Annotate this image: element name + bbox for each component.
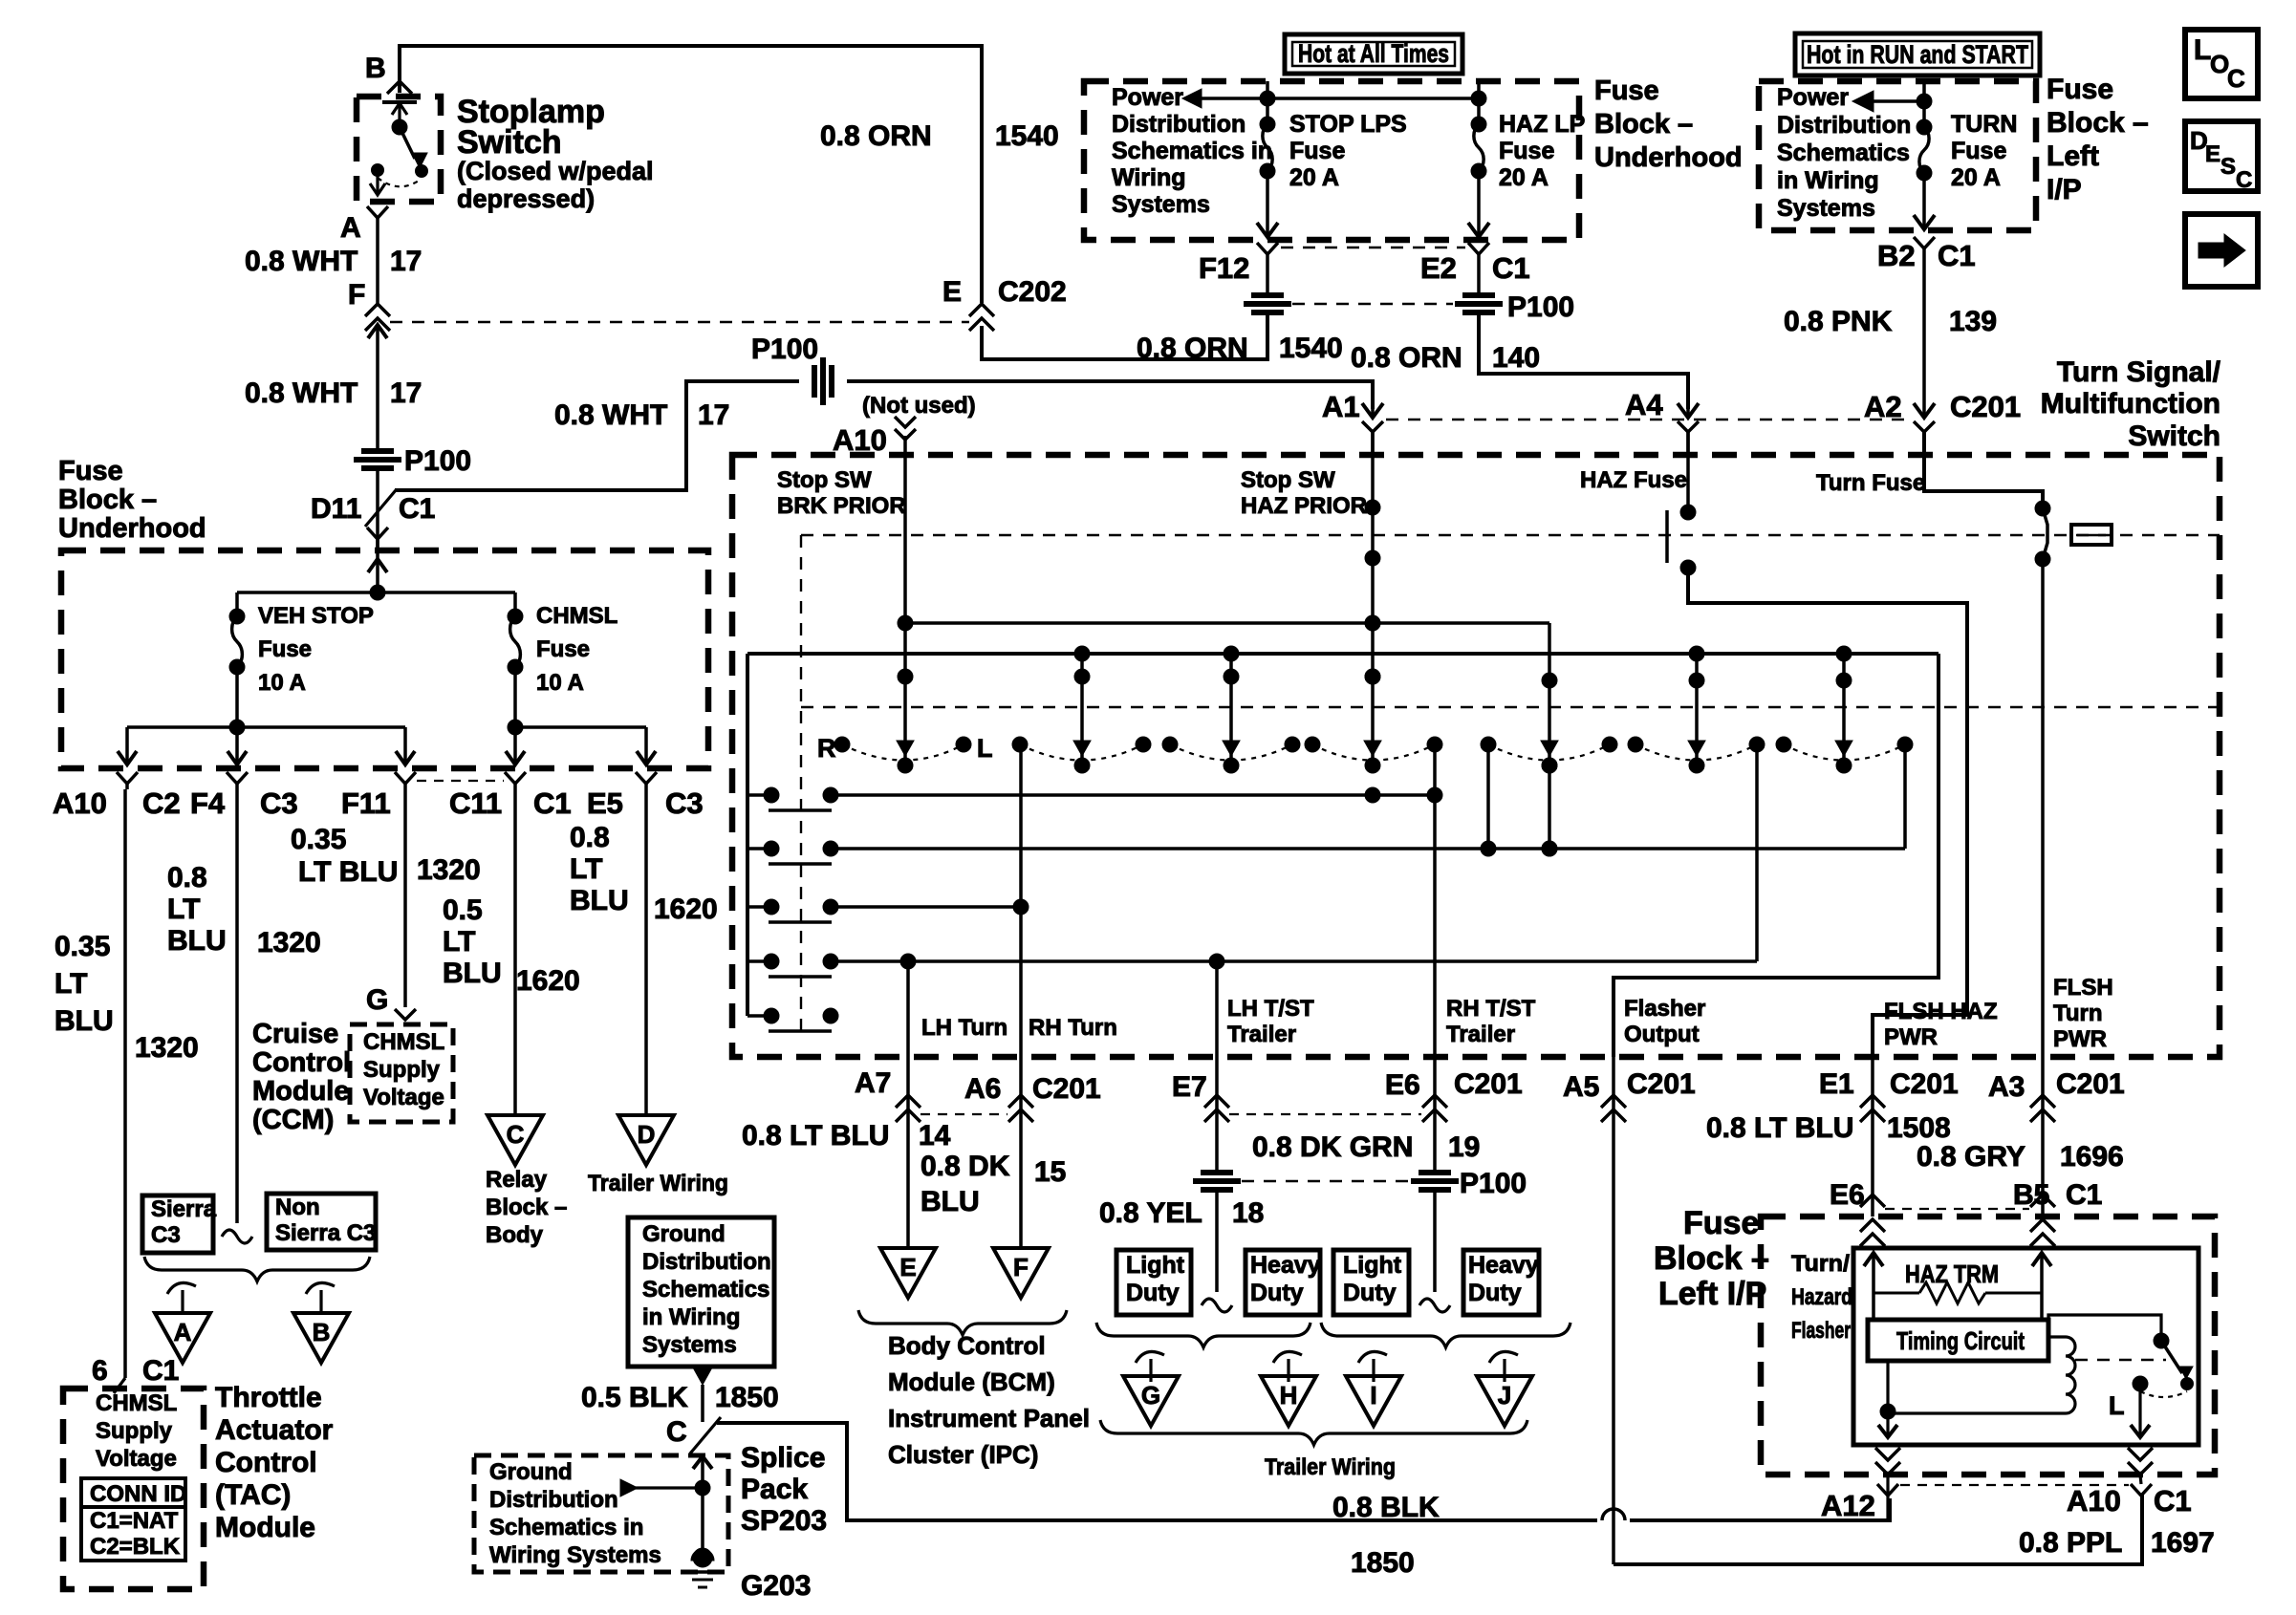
- TAC CHMSL supply voltage box: [63, 1389, 204, 1589]
- ground wire from box: [693, 1367, 712, 1385]
- svg-text:Control: Control: [215, 1447, 317, 1478]
- flasher B5 entry chevrons: [2030, 1219, 2055, 1232]
- arrow legend box: [2185, 214, 2258, 287]
- svg-text:Duty: Duty: [1250, 1280, 1304, 1306]
- svg-text:HAZ Fuse: HAZ Fuse: [1580, 467, 1687, 493]
- svg-text:C1: C1: [399, 493, 435, 525]
- svg-text:A10: A10: [2067, 1484, 2121, 1518]
- svg-text:C2: C2: [142, 786, 181, 820]
- stoplamp switch travel arc: [378, 178, 422, 186]
- Heavy Duty box 4: [1463, 1250, 1539, 1315]
- svg-text:Control: Control: [252, 1047, 351, 1078]
- svg-text:Supply: Supply: [363, 1057, 441, 1083]
- triangle H stem: [1273, 1351, 1302, 1363]
- svg-text:0.35: 0.35: [54, 931, 110, 962]
- flasher A10 exit chevrons: [2128, 1448, 2153, 1460]
- svg-text:C201: C201: [1890, 1068, 1959, 1100]
- svg-text:CHMSL: CHMSL: [96, 1390, 177, 1416]
- svg-text:E6: E6: [1385, 1069, 1420, 1101]
- turn fuse symbol: [2071, 525, 2112, 545]
- hazard contact row2: [747, 847, 765, 851]
- svg-text:HAZ PRIOR: HAZ PRIOR: [1241, 493, 1367, 519]
- connector E6 flasher chevron: [1860, 1195, 1885, 1207]
- contact group 1 R-L: [834, 737, 850, 752]
- svg-text:139: 139: [1949, 306, 1997, 337]
- connector C202 E chevrons: [969, 304, 994, 316]
- triangle H: [1261, 1376, 1316, 1426]
- grommet P100 on branch: [812, 365, 817, 398]
- svg-text:1320: 1320: [257, 927, 321, 958]
- triangle C: [487, 1115, 543, 1165]
- turn fuse contact blade: [2043, 508, 2047, 559]
- break squiggle above CCM brace: [222, 1230, 252, 1243]
- svg-text:F: F: [1013, 1253, 1029, 1281]
- svg-text:C1: C1: [533, 786, 572, 820]
- svg-text:L: L: [977, 734, 993, 763]
- HAZ fuse lower contact: [1680, 560, 1696, 575]
- internal dashed line lower: [801, 706, 2220, 708]
- flasher blade pivot: [2154, 1333, 2169, 1348]
- svg-text:Underhood: Underhood: [1594, 142, 1743, 173]
- fuse HAZ LP 20A: [1471, 117, 1486, 132]
- grommet P100 E7: [1201, 1170, 1233, 1175]
- svg-text:0.8 PNK: 0.8 PNK: [1784, 306, 1893, 337]
- svg-text:Distribution: Distribution: [1777, 112, 1911, 139]
- switch bus wire2: [747, 652, 1939, 656]
- svg-text:A4: A4: [1625, 388, 1663, 421]
- splice feed arrow: [620, 1479, 638, 1497]
- connector A10/C2 chevron: [117, 772, 138, 784]
- svg-text:Supply: Supply: [96, 1418, 173, 1444]
- power distribution bus arrow (right): [1852, 91, 1874, 112]
- resistor HAZ TRM: [1874, 1292, 1919, 1295]
- wire E6 to trailer: [1433, 1119, 1437, 1172]
- svg-text:Wiring: Wiring: [1112, 164, 1186, 191]
- fuse TURN 20A: [1917, 119, 1932, 135]
- wire LH Turn: [906, 961, 910, 1057]
- svg-text:Fuse: Fuse: [258, 636, 312, 662]
- svg-text:D: D: [638, 1120, 656, 1149]
- svg-text:C: C: [507, 1120, 525, 1149]
- svg-text:Block –: Block –: [1654, 1240, 1769, 1277]
- wire E7 0.8 DK GRN trailer: [1215, 1119, 1219, 1172]
- splice junction: [701, 1462, 704, 1550]
- wire A1 HAZ PRIOR drop: [1371, 432, 1375, 760]
- svg-text:A7: A7: [855, 1067, 891, 1099]
- svg-text:BLU: BLU: [167, 925, 227, 957]
- svg-text:Switch: Switch: [457, 124, 562, 161]
- svg-text:STOP LPS: STOP LPS: [1289, 111, 1407, 138]
- svg-text:Non: Non: [275, 1195, 320, 1220]
- svg-text:Hot at All Times: Hot at All Times: [1298, 39, 1449, 68]
- splice top chevron: [693, 1456, 712, 1469]
- wire stoplamp B to C202-E top run: [400, 46, 982, 303]
- svg-text:A: A: [340, 212, 361, 244]
- svg-text:Ground: Ground: [489, 1459, 573, 1485]
- power distribution bus arrow: [1182, 89, 1202, 108]
- TURN fuse feed: [1922, 81, 1926, 127]
- svg-text:1320: 1320: [135, 1032, 199, 1064]
- svg-text:10 A: 10 A: [536, 670, 584, 696]
- svg-text:Duty: Duty: [1468, 1280, 1522, 1306]
- svg-text:0.5 BLK: 0.5 BLK: [581, 1382, 688, 1413]
- connector F11 chevron: [395, 772, 416, 784]
- svg-text:0.8: 0.8: [570, 822, 610, 853]
- svg-text:A1: A1: [1322, 390, 1360, 423]
- svg-text:FLSH HAZ: FLSH HAZ: [1884, 999, 1998, 1024]
- connector A4 arrow: [1678, 403, 1699, 418]
- svg-text:17: 17: [390, 377, 422, 409]
- svg-text:18: 18: [1232, 1197, 1264, 1229]
- triangle I: [1346, 1376, 1401, 1426]
- svg-text:Systems: Systems: [642, 1332, 737, 1358]
- wire turn fuse to A3: [2041, 559, 2045, 1057]
- Light Duty box 1: [1116, 1250, 1191, 1315]
- svg-text:Turn Fuse: Turn Fuse: [1816, 470, 1925, 496]
- svg-text:(Not used): (Not used): [862, 393, 976, 419]
- wire G6 right drop: [1755, 744, 1759, 961]
- Heavy Duty box 2: [1245, 1250, 1320, 1315]
- svg-text:LT: LT: [443, 926, 475, 958]
- wire F below C202: [376, 325, 379, 449]
- triangle J stem: [1489, 1351, 1518, 1363]
- flasher travel arc: [2140, 1391, 2187, 1397]
- svg-text:Fuse: Fuse: [58, 456, 123, 486]
- svg-text:Trailer Wiring: Trailer Wiring: [1265, 1454, 1396, 1480]
- turn signal multifunction switch box: [732, 455, 2220, 1057]
- svg-text:Fuse: Fuse: [1683, 1205, 1759, 1241]
- svg-text:1508: 1508: [1887, 1112, 1951, 1144]
- svg-text:Switch: Switch: [2128, 420, 2220, 452]
- connector A7 pin: [906, 1057, 910, 1119]
- svg-text:I: I: [1370, 1381, 1376, 1410]
- svg-text:1540: 1540: [995, 120, 1059, 152]
- svg-text:1696: 1696: [2060, 1141, 2124, 1173]
- svg-text:Power: Power: [1777, 84, 1849, 111]
- svg-text:BLU: BLU: [921, 1186, 980, 1217]
- svg-text:0.8 ORN: 0.8 ORN: [1351, 342, 1462, 374]
- contact drop 3: [1229, 654, 1233, 760]
- svg-text:Schematics: Schematics: [1777, 140, 1910, 166]
- connector F11-C11 dashed: [417, 780, 504, 782]
- wire branch circuit 17 to A1: [395, 381, 799, 490]
- triangle G: [1123, 1376, 1179, 1426]
- svg-text:CHMSL: CHMSL: [536, 603, 617, 629]
- svg-text:Splice: Splice: [741, 1442, 825, 1474]
- wire 0.8 PNK 139: [1922, 247, 1926, 409]
- contact drop under A10: [898, 669, 913, 684]
- grommet P100 pair: [1251, 292, 1284, 298]
- svg-text:Block –: Block –: [58, 484, 157, 515]
- svg-text:C1: C1: [1938, 239, 1976, 272]
- wire E1 0.8 LT BLU 1508: [1871, 1119, 1874, 1217]
- contact group 7: [1776, 737, 1791, 752]
- svg-text:E6: E6: [1830, 1179, 1865, 1211]
- svg-text:P100: P100: [751, 334, 818, 365]
- svg-text:Trailer: Trailer: [1227, 1022, 1296, 1047]
- wire A10 0.35 LT BLU 1320: [123, 789, 127, 1378]
- svg-text:(CCM): (CCM): [252, 1105, 334, 1135]
- svg-text:1620: 1620: [516, 965, 580, 997]
- wire F4 0.8 LT BLU 1320: [235, 789, 239, 1223]
- svg-text:C201: C201: [2056, 1068, 2125, 1100]
- flasher blade: [2161, 1341, 2182, 1373]
- flasher coil link dashed: [2075, 1359, 2166, 1361]
- switch bus wire1: [905, 621, 1549, 625]
- svg-text:A10: A10: [833, 423, 887, 457]
- flasher connector dashed: [1885, 1208, 2029, 1210]
- svg-text:B2: B2: [1877, 239, 1916, 272]
- wire to A10/C2: [125, 727, 129, 764]
- svg-text:BLU: BLU: [54, 1005, 114, 1037]
- svg-text:RH Turn: RH Turn: [1029, 1015, 1117, 1041]
- wire C11 0.5 LT BLU 1620: [513, 789, 517, 1115]
- svg-text:Timing Circuit: Timing Circuit: [1896, 1326, 2025, 1355]
- internal dashed vertical BRK PRIOR: [800, 535, 802, 1031]
- svg-text:Turn: Turn: [2053, 1001, 2103, 1026]
- CONN ID box: [81, 1478, 185, 1507]
- svg-text:Hazard: Hazard: [1791, 1284, 1852, 1310]
- wire 0.8 PPL 1697: [1614, 1494, 2142, 1564]
- triangle F: [993, 1248, 1049, 1298]
- svg-text:P100: P100: [1507, 291, 1574, 323]
- svg-text:Duty: Duty: [1126, 1280, 1180, 1306]
- svg-text:R: R: [817, 734, 836, 763]
- fuse VEH STOP 10A: [229, 609, 245, 624]
- wire A4 HAZ fuse drop: [1686, 432, 1690, 512]
- connector B5 flasher chevron: [2030, 1195, 2055, 1207]
- wire E6 drop: [1433, 744, 1437, 1057]
- svg-text:140: 140: [1492, 342, 1540, 374]
- svg-text:0.8 LT BLU: 0.8 LT BLU: [742, 1120, 889, 1152]
- ground G203: [691, 1549, 714, 1561]
- wire D11 into block: [367, 528, 388, 539]
- svg-text:I/P: I/P: [2047, 174, 2082, 205]
- splice pack box: [474, 1455, 728, 1572]
- HAZ LP fuse feed: [1477, 81, 1481, 124]
- wire E5 0.8 LT BLU 1620: [644, 789, 648, 1115]
- connector G chevron: [395, 1009, 416, 1020]
- connector A3 pin: [2041, 1057, 2045, 1119]
- svg-text:Block –: Block –: [1594, 109, 1693, 140]
- svg-text:19: 19: [1448, 1131, 1480, 1163]
- svg-text:Module (BCM): Module (BCM): [888, 1367, 1055, 1396]
- svg-text:C1: C1: [142, 1355, 179, 1387]
- wire A2 turn fuse: [1924, 432, 2043, 508]
- svg-text:Block –: Block –: [2047, 107, 2149, 139]
- svg-text:C201: C201: [1032, 1073, 1101, 1105]
- svg-text:PWR: PWR: [1884, 1024, 1938, 1050]
- connector A2 entry: [1922, 432, 1926, 455]
- VEH STOP splits: [127, 725, 405, 729]
- svg-text:14: 14: [919, 1120, 951, 1152]
- wire G7 right drop: [1903, 744, 1907, 849]
- svg-text:Cluster (IPC): Cluster (IPC): [888, 1440, 1038, 1469]
- connector E1 pin: [1871, 1057, 1874, 1119]
- triangle D: [618, 1115, 674, 1165]
- connector F12 chevron: [1257, 243, 1278, 254]
- svg-text:1540: 1540: [1279, 333, 1343, 364]
- svg-text:0.8 PPL: 0.8 PPL: [2019, 1527, 2122, 1559]
- svg-text:Trailer Wiring: Trailer Wiring: [588, 1171, 728, 1196]
- svg-text:Light: Light: [1126, 1252, 1185, 1279]
- wire C to BLK run: [717, 1423, 1597, 1520]
- wire A7 0.8 LT BLU 14: [906, 1119, 910, 1248]
- connector C202 F chevrons: [365, 304, 390, 316]
- break squiggle E7: [1202, 1299, 1232, 1312]
- svg-text:E5: E5: [587, 786, 623, 820]
- trailer brace 1: [1096, 1323, 1310, 1347]
- svg-text:Distribution: Distribution: [642, 1249, 771, 1275]
- svg-text:VEH STOP: VEH STOP: [258, 603, 374, 629]
- stoplamp switch S1 box: [357, 97, 441, 202]
- svg-text:Flasher: Flasher: [1624, 996, 1705, 1022]
- contact group 6: [1628, 737, 1643, 752]
- wire A5 flasher output: [1612, 1119, 1615, 1564]
- svg-text:in Wiring: in Wiring: [642, 1304, 740, 1330]
- svg-text:B5: B5: [2013, 1179, 2049, 1211]
- svg-text:in Wiring: in Wiring: [1777, 167, 1879, 194]
- svg-text:Fuse: Fuse: [536, 636, 590, 662]
- svg-text:Cruise: Cruise: [252, 1019, 338, 1049]
- svg-text:Systems: Systems: [1112, 191, 1210, 218]
- triangle A: [155, 1313, 210, 1363]
- wire to E5/C3: [644, 727, 648, 764]
- svg-text:Body Control: Body Control: [888, 1331, 1046, 1360]
- triangle E: [880, 1248, 936, 1298]
- svg-text:Pack: Pack: [741, 1474, 808, 1505]
- svg-text:Voltage: Voltage: [363, 1085, 444, 1110]
- flasher coil feed: [2048, 1335, 2066, 1338]
- triangle B: [293, 1313, 349, 1363]
- svg-text:Ground: Ground: [642, 1221, 726, 1247]
- triangle A stem: [167, 1282, 196, 1294]
- fuse CHMSL 10A: [508, 609, 523, 624]
- svg-text:A10: A10: [53, 786, 107, 820]
- connector A2 arrow: [1914, 403, 1935, 418]
- connector A12 Y: [1877, 1484, 1898, 1496]
- connector A4 entry: [1686, 432, 1690, 455]
- svg-text:C3: C3: [665, 786, 704, 820]
- svg-text:RH T/ST: RH T/ST: [1446, 996, 1536, 1022]
- svg-text:TURN: TURN: [1951, 111, 2017, 138]
- svg-text:H: H: [1280, 1381, 1298, 1410]
- connector E7 pin: [1215, 1057, 1219, 1119]
- connector C11/C1 chevron: [505, 772, 526, 784]
- connector B chevron: [387, 81, 412, 94]
- wire F11 1320 to G: [403, 789, 407, 1007]
- CONN ID table box: [81, 1507, 185, 1561]
- svg-text:0.8 WHT: 0.8 WHT: [554, 399, 667, 431]
- trailer wiring brace: [1100, 1420, 1527, 1445]
- connector A7-A6 dashed: [921, 1113, 1007, 1115]
- svg-text:Output: Output: [1624, 1022, 1700, 1047]
- svg-text:Distribution: Distribution: [489, 1487, 618, 1513]
- hazard column bus: [746, 654, 749, 1016]
- svg-text:1850: 1850: [715, 1382, 779, 1413]
- svg-text:FLSH: FLSH: [2053, 975, 2113, 1001]
- svg-text:Turn/: Turn/: [1791, 1251, 1850, 1277]
- wire G5 left drop: [1486, 744, 1490, 849]
- svg-text:LT: LT: [167, 894, 200, 925]
- Hot in RUN and START box: [1795, 33, 2040, 75]
- timing circuit output: [1886, 1361, 1889, 1411]
- svg-text:Underhood: Underhood: [58, 513, 206, 544]
- contact group 3: [1162, 737, 1178, 752]
- svg-text:CHMSL: CHMSL: [363, 1029, 444, 1055]
- svg-text:0.8 ORN: 0.8 ORN: [1137, 333, 1248, 364]
- hazard contact row4: [747, 959, 765, 963]
- svg-text:Instrument Panel: Instrument Panel: [888, 1404, 1090, 1432]
- flasher A12 exit chevrons: [1875, 1448, 1900, 1460]
- fuse block left IP (bottom) box: [1761, 1217, 2215, 1475]
- svg-text:B: B: [313, 1318, 331, 1346]
- connector pin A Y: [367, 206, 388, 218]
- timing circuit box: [1868, 1320, 2048, 1361]
- contact drop under A1: [1365, 669, 1380, 684]
- wire A3 0.8 GRY 1696: [2041, 1119, 2045, 1217]
- wire2 to flasher-output A5: [1614, 654, 1939, 1057]
- connector B2 chevron: [1914, 237, 1935, 248]
- svg-text:Light: Light: [1343, 1252, 1402, 1279]
- hazard contact row5: [747, 1014, 765, 1018]
- CHMSL splits: [515, 725, 646, 729]
- ground distribution box: [628, 1217, 774, 1367]
- svg-text:C1: C1: [1492, 251, 1530, 285]
- wire 0.8 ORN 1540 to C202-E: [982, 315, 1267, 359]
- wire F12 to P100: [1266, 254, 1269, 293]
- flasher L contact: [2133, 1376, 2148, 1391]
- svg-text:HAZ TRM: HAZ TRM: [1905, 1260, 1999, 1288]
- svg-text:Heavy: Heavy: [1468, 1252, 1539, 1279]
- svg-text:G: G: [1141, 1381, 1160, 1410]
- fuse block underhood box: [1084, 81, 1579, 240]
- wire to F4/C3: [235, 727, 239, 764]
- svg-text:SP203: SP203: [741, 1505, 827, 1537]
- VEH STOP output junction: [235, 667, 239, 727]
- flasher B5 output arrow: [2040, 1253, 2044, 1293]
- connector E7-E6 dashed: [1229, 1113, 1421, 1115]
- svg-text:B: B: [365, 53, 386, 84]
- svg-text:Voltage: Voltage: [96, 1446, 177, 1472]
- svg-text:15: 15: [1034, 1156, 1066, 1188]
- CHMSL Supply Voltage box (CCM): [350, 1024, 453, 1122]
- svg-text:Heavy: Heavy: [1250, 1252, 1321, 1279]
- svg-text:CONN ID: CONN ID: [90, 1481, 186, 1507]
- svg-text:0.8 WHT: 0.8 WHT: [245, 377, 357, 409]
- flasher blade feed: [2048, 1315, 2161, 1341]
- wire to C11/C1: [513, 727, 517, 764]
- stoplamp switch arm arrow up: [398, 103, 401, 127]
- svg-text:Fuse: Fuse: [1594, 75, 1659, 106]
- triangle G stem: [1136, 1351, 1164, 1363]
- svg-text:C1: C1: [2154, 1484, 2192, 1518]
- svg-text:Hot in RUN and START: Hot in RUN and START: [1807, 40, 2028, 69]
- svg-text:0.8: 0.8: [167, 862, 207, 894]
- svg-text:(Closed w/pedal: (Closed w/pedal: [457, 157, 654, 185]
- fuse VEH STOP feed: [235, 592, 239, 616]
- svg-text:Fuse: Fuse: [1499, 138, 1554, 164]
- connector E2 chevron: [1468, 243, 1489, 254]
- wire A6 0.8 DK BLU 15: [1019, 1119, 1023, 1248]
- stoplamp switch blade: [392, 119, 407, 135]
- svg-text:0.8 BLK: 0.8 BLK: [1332, 1492, 1440, 1523]
- svg-text:Stop SW: Stop SW: [777, 467, 872, 493]
- svg-text:C202: C202: [998, 276, 1067, 308]
- svg-text:0.35: 0.35: [291, 824, 346, 855]
- svg-text:E: E: [2205, 141, 2220, 167]
- triangle B stem: [306, 1282, 335, 1294]
